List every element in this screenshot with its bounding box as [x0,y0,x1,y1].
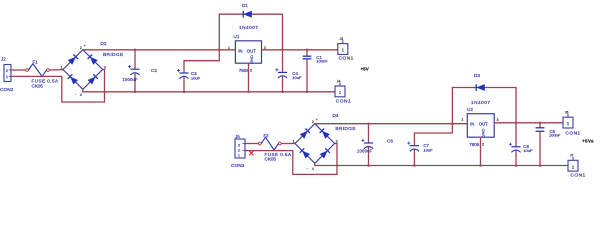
svg-text:IN: IN [470,121,474,126]
svg-text:J6: J6 [565,111,569,115]
svg-text:1N4007: 1N4007 [239,25,258,30]
svg-text:CON1: CON1 [336,98,351,104]
svg-text:D3: D3 [474,73,480,78]
svg-text:J7: J7 [570,154,574,158]
svg-text:2: 2 [250,69,252,73]
svg-text:J2: J2 [1,57,6,62]
svg-text:J3: J3 [340,37,344,41]
svg-text:BRIDGE: BRIDGE [335,126,356,132]
svg-text:F2: F2 [264,133,270,138]
svg-text:J4: J4 [337,79,341,83]
svg-text:2: 2 [238,149,240,153]
svg-text:1N4007: 1N4007 [471,100,490,105]
svg-text:D1: D1 [242,3,248,8]
svg-text:D4: D4 [333,113,339,118]
svg-text:2: 2 [312,120,314,124]
svg-text:BRIDGE: BRIDGE [103,52,124,58]
svg-text:+5V: +5V [361,66,370,71]
svg-text:CON1: CON1 [339,55,354,61]
svg-text:1: 1 [228,46,230,50]
svg-text:7805: 7805 [469,142,480,147]
svg-text:OUT: OUT [479,121,488,126]
svg-text:2: 2 [80,46,82,50]
svg-text:C2: C2 [151,68,157,73]
svg-text:1000uF: 1000uF [123,77,139,82]
svg-text:CON1: CON1 [570,172,585,178]
svg-text:10uF: 10uF [423,147,433,152]
svg-text:2: 2 [482,143,484,147]
svg-text:U1: U1 [234,34,240,39]
svg-text:IN: IN [238,48,242,53]
svg-text:100nF: 100nF [549,133,561,138]
svg-text:1: 1 [6,75,8,79]
svg-text:+: + [316,118,318,122]
svg-text:3: 3 [497,118,499,122]
svg-text:1: 1 [293,140,295,144]
svg-text:D2: D2 [101,41,107,46]
svg-text:10uF: 10uF [292,75,302,80]
svg-text:1: 1 [461,118,463,122]
svg-text:3: 3 [104,66,106,70]
svg-text:7805: 7805 [239,68,250,73]
svg-text:CK05: CK05 [32,83,44,88]
svg-text:+: + [84,44,86,48]
svg-text:3: 3 [238,144,240,148]
svg-text:C6: C6 [387,139,393,144]
svg-text:3: 3 [336,140,338,144]
svg-text:10uF: 10uF [523,148,533,153]
svg-text:10uF: 10uF [191,76,201,81]
svg-text:+5Va: +5Va [582,139,594,144]
svg-text:1: 1 [61,66,63,70]
svg-text:F1: F1 [33,60,39,65]
svg-text:2: 2 [6,69,8,73]
svg-text:J5: J5 [235,134,240,139]
svg-text:1000uF: 1000uF [357,148,373,153]
svg-text:100nF: 100nF [316,59,328,64]
svg-text:4: 4 [312,167,314,171]
svg-text:OUT: OUT [247,48,256,53]
svg-text:1: 1 [238,154,240,158]
svg-text:GND: GND [481,128,486,137]
svg-text:CK05: CK05 [265,156,277,161]
svg-text:CON3: CON3 [231,163,245,169]
svg-text:U2: U2 [467,107,473,112]
svg-text:4: 4 [80,93,82,97]
svg-text:GND: GND [249,55,254,64]
svg-text:CON2: CON2 [0,87,14,93]
svg-text:CON1: CON1 [565,130,580,136]
